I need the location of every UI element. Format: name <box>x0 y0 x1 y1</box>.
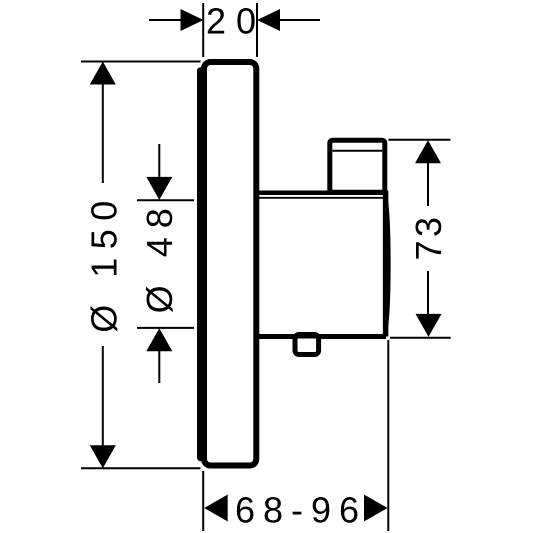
dim 73: lower line <box>427 271 429 314</box>
bottom tab below body <box>295 335 319 355</box>
valve body bottom edge <box>257 334 386 339</box>
valve body inner thin line <box>259 197 384 199</box>
dim 48: top tail line <box>158 144 160 178</box>
dim 68-96: left extension line <box>202 471 204 531</box>
svg-text:2 0: 2 0 <box>206 1 256 42</box>
svg-text:73: 73 <box>408 213 449 260</box>
dim 20: right leader <box>280 19 320 21</box>
body bottom line over tab top <box>292 335 322 339</box>
dim 48: top arrow (down) <box>146 177 172 200</box>
dim 150: top arrow (up) <box>90 62 116 85</box>
escutcheon plate (side view, thick rounded outline) <box>204 62 256 466</box>
svg-text:Ø 48: Ø 48 <box>139 199 180 313</box>
dim 68-96: right arrow (right) <box>364 495 388 522</box>
dim 73: bottom arrow (down) <box>416 314 442 337</box>
dim 68-96: right extension line <box>387 340 389 531</box>
dim 150: bottom arrow (down) <box>90 445 116 468</box>
dim 20: left leader <box>149 19 181 21</box>
cartridge line inside stop box <box>333 150 383 152</box>
valve body right edge <box>383 191 389 337</box>
dim 48: top extension line <box>137 199 194 201</box>
dim 20: left arrow <box>181 9 204 31</box>
dim 73: top arrow (up) <box>415 140 441 163</box>
dim 73: upper line <box>427 163 429 206</box>
dim 68-96: left arrow (left) <box>204 495 228 522</box>
dim 73: top extension line <box>388 139 450 141</box>
valve body right bulge arc <box>386 196 389 332</box>
valve body top edge <box>257 190 386 195</box>
svg-text:Ø 150: Ø 150 <box>84 192 125 333</box>
dim 20: right arrow <box>257 9 280 31</box>
dim 150: lower line <box>102 346 104 446</box>
dim 150: upper line <box>102 84 104 183</box>
stop ring box on top of body <box>330 140 385 192</box>
dim 73: bottom extension line <box>390 337 451 339</box>
dim 48: bottom extension line <box>137 327 194 329</box>
dim 48: bottom tail line <box>158 351 160 383</box>
wall flange bar (black strip on back of plate) <box>197 67 205 461</box>
dim 150: top extension line <box>81 61 201 63</box>
dim 150: bottom extension line <box>81 467 201 469</box>
dim 48: bottom arrow (up) <box>146 328 172 351</box>
dim 20: left extension line <box>202 3 204 57</box>
svg-text:6 8 - 9 6: 6 8 - 9 6 <box>235 490 358 531</box>
dim 20: right extension line <box>256 3 258 57</box>
